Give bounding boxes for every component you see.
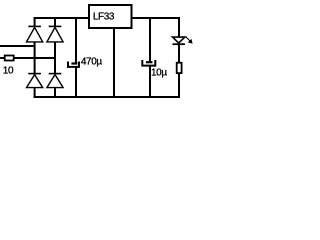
- wire LED branch: [178, 17, 180, 37]
- regulator U1 LF33: [89, 5, 132, 28]
- svg-text:10: 10: [3, 66, 14, 77]
- diode D1 top-left: [27, 26, 43, 42]
- wire C2 branch: [149, 17, 151, 62]
- svg-text:470µ: 470µ: [81, 56, 102, 67]
- diode D3 bottom-left: [27, 74, 43, 88]
- LED D5 cathode bar: [173, 43, 185, 45]
- resistor R2 (LED series resistor): [177, 63, 182, 73]
- capacitor C1 470u polarized plate: [71, 62, 77, 64]
- wire bottom rail DC-: [34, 96, 180, 98]
- wire AC input 1: [0, 45, 35, 47]
- wire regulator ground stub: [113, 28, 115, 96]
- LED D5 triangle: [173, 37, 185, 43]
- wire C1 branch: [75, 17, 77, 63]
- diode D4 bottom-right: [47, 74, 63, 88]
- svg-text:LF33: LF33: [93, 12, 115, 23]
- wire output rail from regulator to LED branch: [132, 17, 181, 19]
- wire AC input 2 right segment: [14, 57, 56, 59]
- capacitor C1 cup: [68, 62, 79, 67]
- wire left bridge column: [34, 17, 36, 26]
- wire AC input 2 left segment: [0, 57, 5, 59]
- diode D2 top-right: [47, 26, 63, 42]
- svg-text:10µ: 10µ: [151, 68, 167, 79]
- wire right bridge column: [54, 17, 56, 26]
- capacitor C2 10u polarized plate: [146, 61, 153, 63]
- resistor R1 (series input resistor): [5, 56, 14, 61]
- capacitor C2 cup: [142, 60, 155, 66]
- wire top rail DC+ from bridge to regulator: [34, 17, 89, 19]
- LED emission arrow: [186, 37, 192, 43]
